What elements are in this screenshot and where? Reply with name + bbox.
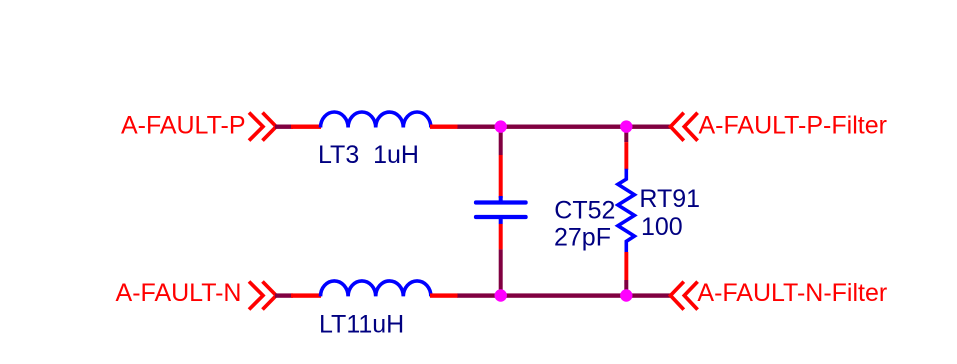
svg-text:CT52: CT52	[554, 197, 615, 225]
svg-text:A-FAULT-N-Filter: A-FAULT-N-Filter	[697, 279, 887, 307]
wire (red segment to L pin, top-left)	[291, 125, 321, 129]
svg-text:A-FAULT-P-Filter: A-FAULT-P-Filter	[699, 112, 887, 140]
wire (purple, cap branch lower)	[499, 249, 503, 295]
junction node (top, capacitor)	[495, 120, 507, 132]
svg-text:A-FAULT-P: A-FAULT-P	[121, 112, 246, 140]
junction node (bottom, resistor)	[620, 289, 632, 301]
wire (red segment after L, top)	[430, 125, 458, 129]
capacitor CT52	[474, 196, 528, 224]
wire (purple top rail)	[458, 125, 671, 129]
junction node (bottom, capacitor)	[495, 289, 507, 301]
svg-text:RT91: RT91	[639, 185, 700, 213]
wire (red segment after L, bottom)	[430, 293, 458, 297]
svg-text:27pF: 27pF	[554, 224, 611, 252]
wire (purple, cap branch upper)	[499, 127, 503, 156]
port connector A-FAULT-N-Filter (double chevron)	[671, 282, 698, 310]
resistor RT91	[618, 169, 635, 252]
wire (purple, resistor branch upper)	[624, 127, 628, 143]
wire (red, resistor branch upper)	[624, 142, 628, 170]
wire (red segment to L pin, bottom-left)	[291, 293, 321, 297]
svg-text:LT11uH: LT11uH	[319, 310, 404, 338]
svg-text:LT3 1uH: LT3 1uH	[318, 141, 419, 169]
port connector A-FAULT-N (double chevron)	[249, 282, 276, 310]
wire (red, cap branch lower)	[499, 224, 503, 250]
wire (red, resistor branch lower)	[624, 252, 628, 280]
svg-text:100: 100	[641, 213, 683, 241]
inductor LT3	[321, 112, 431, 128]
wire (purple stub after left port, bottom)	[275, 293, 293, 297]
wire (red, cap branch upper)	[499, 155, 503, 198]
svg-text:A-FAULT-N: A-FAULT-N	[116, 279, 242, 307]
inductor LT11	[321, 281, 431, 297]
wire (purple bottom rail)	[458, 293, 671, 297]
port connector A-FAULT-P (double chevron)	[249, 113, 276, 141]
wire (purple, resistor branch lower)	[624, 280, 628, 296]
port connector A-FAULT-P-Filter (double chevron)	[671, 113, 698, 141]
wire (purple stub after left port, top)	[275, 125, 293, 129]
junction node (top, resistor)	[620, 120, 632, 132]
